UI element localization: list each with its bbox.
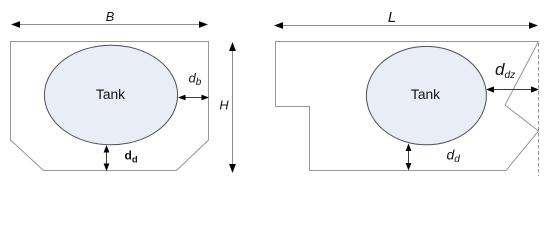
dimension B right arrowhead bbox=[199, 21, 208, 28]
dimension H top arrowhead bbox=[229, 42, 236, 51]
dimension d_d (left) bottom arrowhead bbox=[104, 164, 110, 172]
dimension d_b right arrowhead bbox=[202, 95, 210, 101]
svg-text:db: db bbox=[189, 71, 202, 89]
svg-text:B: B bbox=[106, 9, 115, 24]
dimension d_d (right) top arrowhead bbox=[406, 144, 412, 152]
left hull cross-section outline bbox=[11, 42, 209, 171]
dimension d_d (left) top arrowhead bbox=[104, 145, 110, 153]
svg-text:L: L bbox=[388, 9, 396, 26]
dimension d_dz line bbox=[491, 89, 534, 91]
left tank ellipse bbox=[44, 45, 177, 145]
dimension L right arrowhead bbox=[529, 22, 538, 29]
svg-text:H: H bbox=[219, 97, 229, 112]
dimension d_b left arrowhead bbox=[178, 95, 186, 101]
dimension d_d (right) bottom arrowhead bbox=[406, 163, 412, 171]
right hull cross-section outline bbox=[276, 42, 539, 171]
svg-text:Tank: Tank bbox=[411, 87, 440, 102]
dimension d_dz right arrowhead bbox=[531, 86, 539, 92]
dashed reference line at hull side bbox=[538, 43, 540, 176]
svg-text:ddz: ddz bbox=[495, 60, 515, 81]
dimension B line bbox=[17, 24, 202, 26]
dimension L left arrowhead bbox=[274, 22, 283, 29]
svg-text:Tank: Tank bbox=[96, 87, 125, 102]
svg-text:dd: dd bbox=[125, 149, 138, 166]
right tank ellipse bbox=[366, 46, 486, 144]
dimension H line bbox=[232, 47, 234, 168]
dimension d_d (left) line bbox=[106, 150, 108, 166]
dimension L line bbox=[280, 25, 532, 27]
dimension d_dz left arrowhead bbox=[486, 86, 494, 92]
dimension H bottom arrowhead bbox=[229, 164, 236, 173]
dimension d_d (right) line bbox=[408, 149, 410, 166]
dimension B left arrowhead bbox=[11, 21, 20, 28]
dimension d_b line bbox=[183, 97, 204, 99]
svg-text:dd: dd bbox=[447, 146, 461, 165]
